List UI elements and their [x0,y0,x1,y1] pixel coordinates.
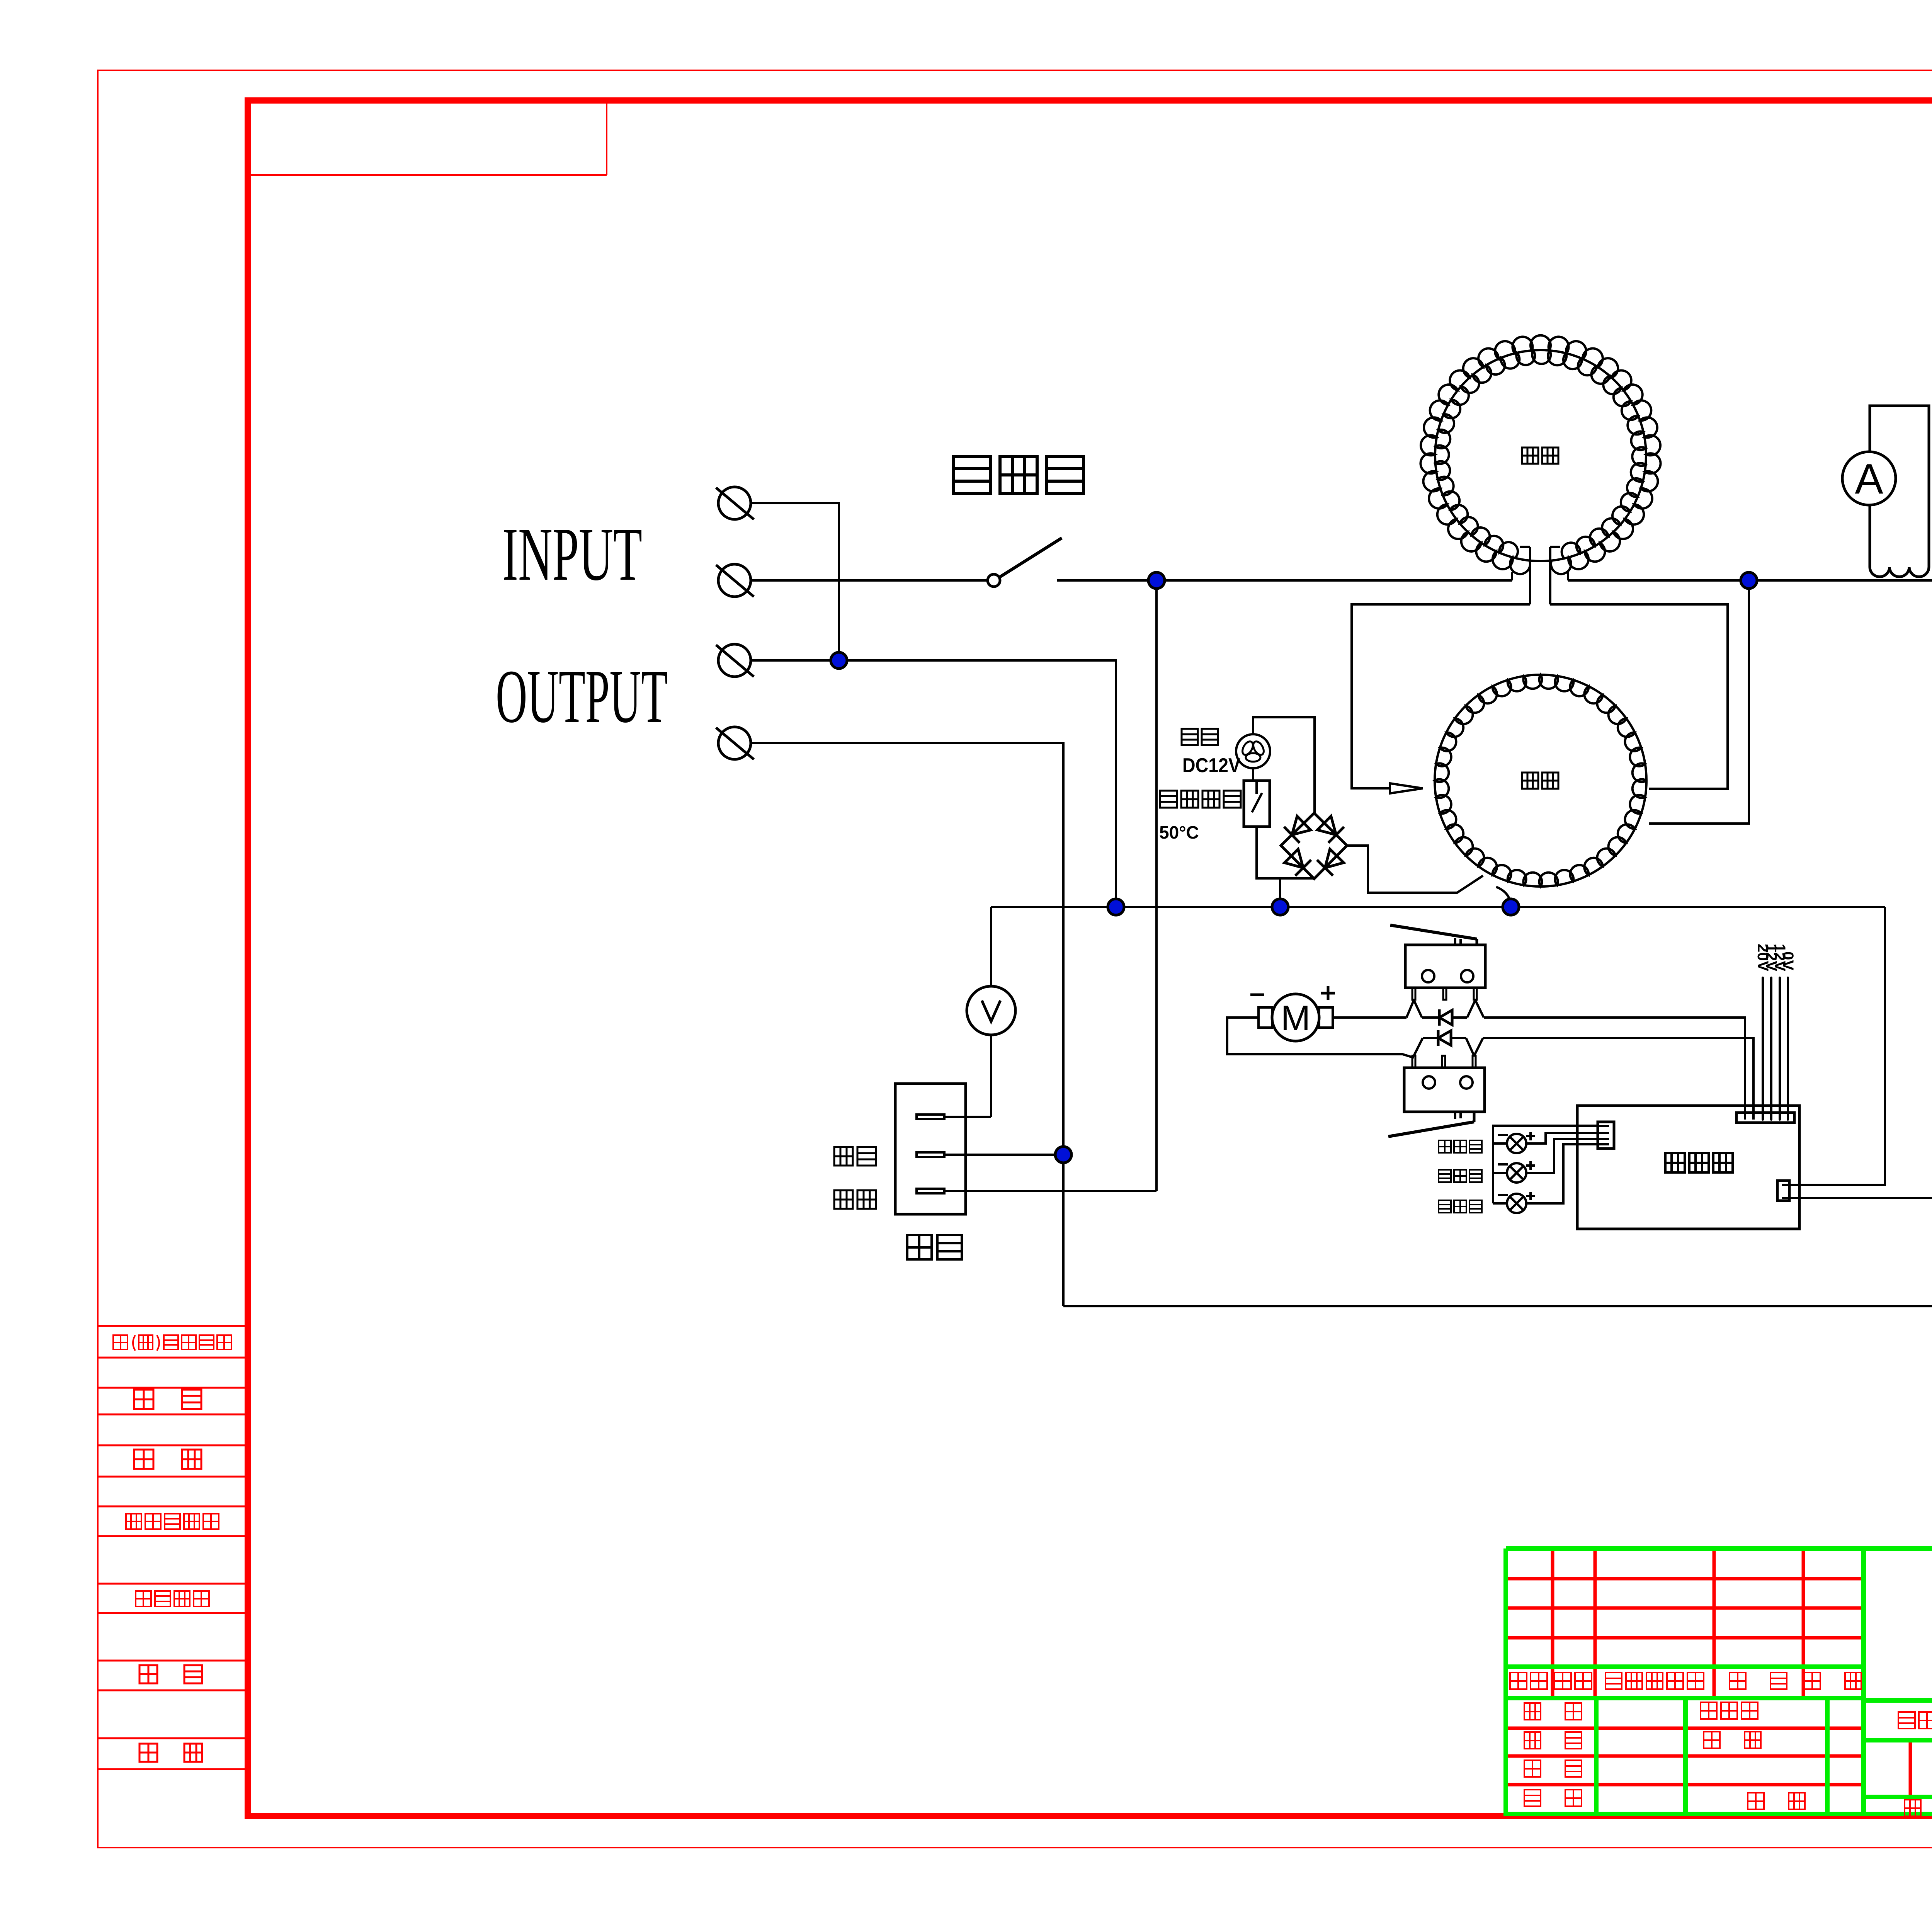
left table labels [113,1335,231,1351]
diode D2 [1438,1031,1451,1045]
svg-text:A: A [1855,455,1883,503]
coil2 bottom lead curve [1496,887,1511,907]
svg-text:INPUT: INPUT [502,512,642,596]
motor plus [1321,992,1335,995]
svg-text:DC12V: DC12V [1182,754,1240,777]
bridge bottom to bus [1279,878,1281,907]
motor M [1272,994,1319,1041]
title block labels [1510,1673,1547,1689]
fan bottom wire [1252,768,1254,781]
lamp 工作灯 [1507,1163,1526,1183]
tap arrow [1390,783,1423,793]
terminal T3 [718,644,751,677]
terminal T2 [718,564,751,597]
coil1 left lead wire to tap arrow [1352,604,1530,788]
svg-text:OUTPUT: OUTPUT [496,654,668,738]
board 4-pin connector [1598,1122,1614,1149]
label 输入 [834,1190,876,1209]
fan top wire to bridge [1253,717,1315,813]
junction [1741,572,1757,589]
bridge diode upper-left [1292,816,1311,835]
tap wire 20V [1762,978,1764,1120]
wire to pcb connector pin2 [1483,1038,1753,1120]
lower bus wire [991,906,1885,908]
label 线路板 [1665,1153,1733,1172]
green grid lines [1506,1546,1932,1551]
push button box [895,1084,966,1214]
pcb 6-pin connector [1736,1113,1794,1123]
vertical from main wire junction x2993 [1155,580,1158,1191]
lamp3 plus wire [1526,1144,1598,1203]
button contact 2 [917,1152,944,1157]
bus right end down to socket [1789,907,1885,1185]
thermal switch bottom wire to bridge [1257,827,1314,878]
chain bottom wire to pcb socket [1789,1091,1932,1198]
label 风扇 [1182,729,1218,745]
lamp minus rail [1493,1126,1598,1203]
fan blades [1246,753,1260,762]
coil1 winding leads [1529,547,1531,604]
breaker switch [988,574,1000,587]
lower pin connections [1414,1038,1423,1056]
bridge diode lower-right [1325,849,1344,868]
thermal switch blade [1255,781,1258,794]
lower microswitch pins [1412,1056,1415,1068]
junction [831,652,847,669]
bridge right corner wire to coil2 [1347,846,1483,893]
upper microswitch body [1405,945,1485,988]
lamp2 plus wire [1526,1139,1598,1173]
junction [1272,899,1288,915]
main wire right of coil1 [1567,572,1569,580]
coil1 toroid outer scallops [1435,351,1646,558]
bridge diode upper-right [1317,816,1336,835]
label 输出 [834,1147,876,1166]
coil1 right lead wire down to coil2 [1550,604,1728,789]
circuit board 线路板 [1577,1106,1799,1229]
junction [1055,1147,1071,1163]
tap wire 0V [1787,978,1789,1120]
lamp1 plus wire [1526,1133,1598,1143]
upper microswitch pins [1412,988,1415,1000]
bottom long wire [1063,580,1932,1306]
coil2 core circle [1435,675,1646,887]
fan circle [1236,734,1270,768]
current transformer [1870,406,1929,567]
junction [1148,572,1165,589]
wire T4 [751,743,1063,1306]
V meter [990,907,992,986]
junction [1108,899,1124,915]
junction [1503,899,1519,915]
thermal switch 50C box [1244,781,1270,827]
coil2 label 线圈 [1522,773,1558,789]
bridge diode lower-left [1284,849,1303,868]
lower microswitch body [1404,1068,1485,1112]
diode D1 [1439,1010,1452,1025]
upper microswitch lever [1390,925,1477,939]
svg-text:0V: 0V [1779,951,1796,970]
wire T1 to junction [751,503,839,660]
label 温度开关 [1160,791,1241,808]
svg-text:M: M [1281,999,1311,1038]
wire T3 [751,660,1116,907]
lower microswitch lever [1388,1122,1474,1137]
tap wire 12V [1779,978,1781,1120]
button contact 3 [917,1189,944,1193]
ammeter A [1842,452,1896,505]
coil1 label 线圈 [1522,448,1558,464]
motor brushes [1259,1007,1272,1028]
top-left small box [606,104,607,175]
left margin table [98,1325,248,1327]
tap wire 12V [1770,978,1772,1120]
button contact 1 [917,1115,944,1119]
board side socket [1777,1181,1789,1201]
label 断路器 [954,456,1083,493]
upper pin connections [1406,1000,1414,1018]
revision table red lines [1506,1577,1864,1581]
coil1 core circle [1435,350,1646,561]
thick red inner border [248,100,1932,1816]
bridge rectifier diamond [1281,813,1347,879]
terminal T1 [718,487,751,519]
lamp 过压灯 [1507,1134,1526,1153]
motor right wire [1333,1016,1406,1019]
wire main junction to coil2 right [1649,580,1749,824]
label 按钮 [907,1235,962,1259]
coil1 inner scallops [1420,335,1660,574]
svg-text:50°C: 50°C [1159,822,1199,842]
coil2 toroid outer scallops [1435,675,1646,887]
motor minus [1250,994,1264,996]
main wire after breaker [1057,579,1512,582]
terminal T4 [718,727,751,759]
lamp 欠压灯 [1507,1194,1526,1213]
motor left wire loop [1227,1018,1414,1058]
wire T2 to breaker [751,579,988,582]
wire to pcb connector pin1 [1484,1018,1745,1120]
